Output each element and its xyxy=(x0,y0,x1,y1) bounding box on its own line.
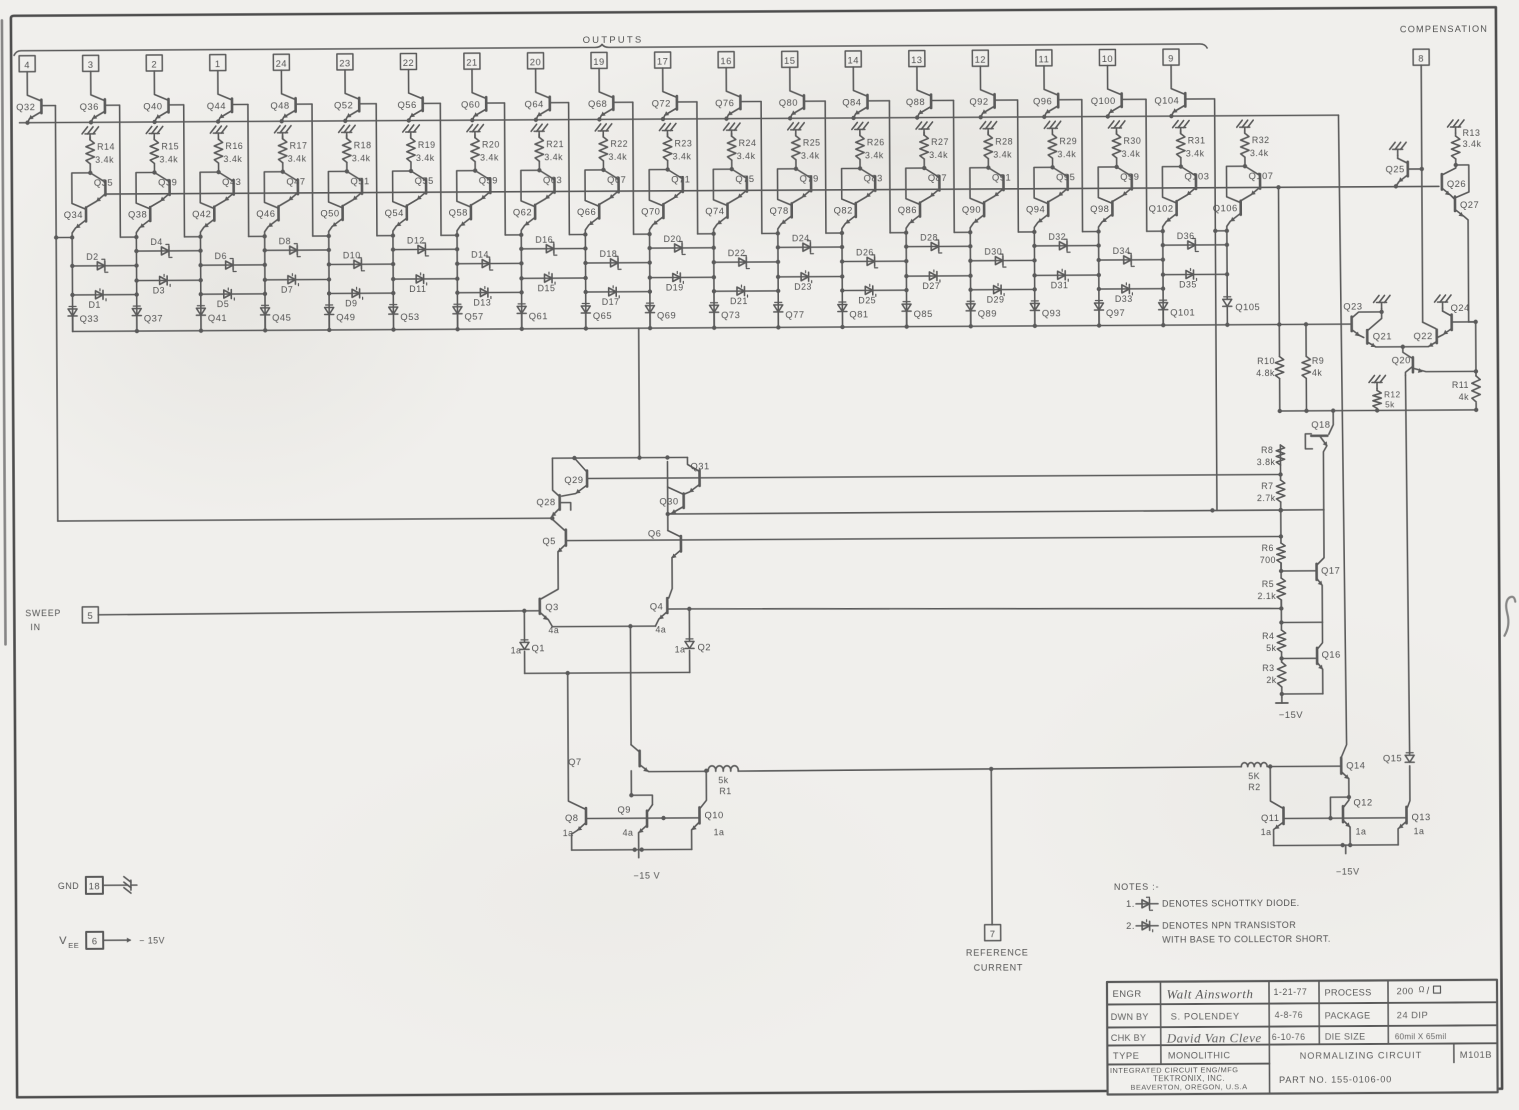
transistor Q39 xyxy=(151,172,177,206)
resistor R21 3.4k xyxy=(535,134,564,172)
pin 9 output terminal xyxy=(1163,49,1179,65)
transistor Q76 xyxy=(715,68,741,121)
ground for R20 xyxy=(467,125,484,138)
diode D19 xyxy=(648,271,714,292)
diode D35 xyxy=(1161,268,1227,289)
junction dots ladder 4 xyxy=(263,263,268,296)
wire Q84 base to ladder 14 xyxy=(868,101,908,235)
svg-text:D23: D23 xyxy=(794,282,812,292)
svg-text:OUTPUTS: OUTPUTS xyxy=(583,35,644,46)
transistor Q54 xyxy=(384,171,411,236)
svg-text:3.4k: 3.4k xyxy=(480,152,499,162)
resistor R11 4k xyxy=(1452,322,1481,412)
svg-text:Q87: Q87 xyxy=(928,172,947,183)
transistor Q36 xyxy=(79,71,105,124)
transistor Q34 xyxy=(64,173,91,238)
ladder 16 column wire xyxy=(1033,232,1036,326)
transistor Q48 xyxy=(270,70,296,123)
svg-text:CURRENT: CURRENT xyxy=(974,962,1024,972)
resistor R6 700 xyxy=(1260,543,1286,571)
svg-text:13: 13 xyxy=(911,54,923,65)
wire Q32 base to ladder 1 xyxy=(42,105,76,521)
svg-text:GND: GND xyxy=(58,881,79,891)
svg-text:D12: D12 xyxy=(407,235,425,245)
svg-text:22: 22 xyxy=(403,57,415,68)
svg-text:D14: D14 xyxy=(471,250,489,260)
svg-text:Q28: Q28 xyxy=(536,496,555,507)
svg-text:IN: IN xyxy=(30,622,40,632)
svg-text:Q39: Q39 xyxy=(158,176,177,187)
pin 17 output terminal xyxy=(655,52,671,68)
transistor Q26 xyxy=(1442,165,1466,199)
transistor Q55 xyxy=(408,171,434,205)
resistor R2 5k xyxy=(1241,762,1340,792)
svg-text:15: 15 xyxy=(784,55,796,66)
schottky diode D6 xyxy=(198,251,265,272)
svg-text:Q45: Q45 xyxy=(272,312,291,323)
svg-text:1.: 1. xyxy=(1126,898,1135,909)
svg-text:R13: R13 xyxy=(1463,128,1481,138)
svg-text:REFERENCE: REFERENCE xyxy=(966,947,1029,957)
transistor Q78 xyxy=(769,169,796,234)
svg-text:D21: D21 xyxy=(730,296,748,306)
pin 14 output terminal xyxy=(845,51,861,67)
bus drop to Q14 collector wire xyxy=(1337,115,1346,758)
svg-text:R20: R20 xyxy=(482,139,500,149)
transistor Q22 xyxy=(1403,330,1437,347)
svg-text:DIE SIZE: DIE SIZE xyxy=(1325,1032,1366,1042)
wire Q48 base to ladder 5 xyxy=(297,104,331,238)
transistor Q75 xyxy=(728,169,754,203)
svg-text:3.4k: 3.4k xyxy=(223,154,242,164)
svg-text:Q26: Q26 xyxy=(1447,178,1466,189)
transistor Q24 xyxy=(1435,295,1478,337)
diode Q15 xyxy=(1383,752,1414,763)
svg-text:Q42: Q42 xyxy=(192,208,211,219)
svg-text:Q33: Q33 xyxy=(80,313,99,324)
svg-text:Q83: Q83 xyxy=(864,172,883,183)
svg-text:Q56: Q56 xyxy=(397,99,416,110)
diode-transistor Q45 xyxy=(261,305,292,332)
wire Q100 base to ladder 18 xyxy=(1123,99,1165,233)
title row DWN BY xyxy=(1111,1009,1429,1022)
svg-text:Q51: Q51 xyxy=(350,175,369,186)
svg-text:Q14: Q14 xyxy=(1346,760,1365,771)
ground symbol for pin 18 xyxy=(124,877,137,894)
junction dots ladder 16 xyxy=(1032,258,1037,291)
ground for R32 xyxy=(1237,120,1254,133)
svg-text:R25: R25 xyxy=(803,138,821,148)
svg-text:Q37: Q37 xyxy=(144,312,163,323)
ground for R26 xyxy=(852,122,869,135)
svg-text:Q57: Q57 xyxy=(464,311,483,322)
pin 13 output terminal xyxy=(909,51,925,67)
transistor Q47 xyxy=(279,172,305,206)
svg-text:2.1k: 2.1k xyxy=(1257,591,1276,601)
title block company xyxy=(1110,1064,1392,1092)
svg-text:/: / xyxy=(1426,986,1429,997)
svg-text:3.4k: 3.4k xyxy=(929,150,948,160)
svg-text:Q77: Q77 xyxy=(785,309,804,320)
transistor Q102 xyxy=(1148,167,1181,232)
svg-text:1-21-77: 1-21-77 xyxy=(1273,987,1307,997)
svg-text:3.4k: 3.4k xyxy=(1250,148,1269,158)
svg-text:PROCESS: PROCESS xyxy=(1325,987,1372,997)
ladder bottom rail wire xyxy=(73,322,1351,334)
resistor R24 3.4k xyxy=(727,133,756,171)
junction dots ladder 14 xyxy=(904,259,909,292)
svg-text:Q4: Q4 xyxy=(650,601,664,612)
ground for R24 xyxy=(724,123,741,136)
svg-text:3.4k: 3.4k xyxy=(1463,139,1482,149)
ladder 17 column wire xyxy=(1098,232,1101,326)
wire Q88 base to ladder 15 xyxy=(932,100,972,234)
svg-text:Q78: Q78 xyxy=(769,205,788,216)
resistor R26 3.4k xyxy=(856,132,885,170)
svg-text:Q35: Q35 xyxy=(94,177,113,188)
svg-text:Q62: Q62 xyxy=(513,206,532,217)
svg-text:− 15V: − 15V xyxy=(139,935,165,945)
transistor Q84 xyxy=(842,67,868,120)
svg-text:Q89: Q89 xyxy=(978,308,997,319)
svg-text:R8: R8 xyxy=(1261,445,1273,455)
svg-text:R1: R1 xyxy=(719,786,731,796)
ground for R19 xyxy=(403,125,420,138)
svg-text:Q98: Q98 xyxy=(1090,203,1109,214)
svg-text:Q90: Q90 xyxy=(962,204,981,215)
transistor Q10 xyxy=(691,771,724,850)
svg-text:24 DIP: 24 DIP xyxy=(1397,1009,1429,1020)
transistor Q82 xyxy=(833,168,860,233)
pin 21 output terminal xyxy=(464,53,480,69)
svg-text:Q72: Q72 xyxy=(652,98,671,109)
svg-text:Q101: Q101 xyxy=(1170,306,1195,317)
resistor R32 3.4k xyxy=(1241,130,1270,168)
wire node rail 457 xyxy=(552,455,687,460)
svg-text:24: 24 xyxy=(276,58,288,69)
junction dots ladder 3 xyxy=(198,249,203,283)
svg-text:D34: D34 xyxy=(1113,246,1131,256)
svg-text:Q9: Q9 xyxy=(617,804,631,815)
transistor Q68 xyxy=(588,68,614,121)
diode-transistor Q49 xyxy=(325,305,356,332)
svg-text:Q44: Q44 xyxy=(207,100,226,111)
svg-text:R16: R16 xyxy=(225,141,243,151)
svg-text:R19: R19 xyxy=(418,140,436,150)
schottky diode D24 xyxy=(776,233,842,254)
diode-transistor Q69 xyxy=(645,303,676,330)
svg-text:7: 7 xyxy=(990,928,996,939)
transistor Q31 xyxy=(684,457,709,494)
svg-text:3: 3 xyxy=(88,59,94,70)
ladder 2 column wire xyxy=(135,237,138,331)
pin 4 output terminal xyxy=(19,56,35,72)
junction dots ladder 8 xyxy=(519,261,524,294)
transistor Q103 xyxy=(1177,166,1209,200)
svg-text:David Van Cleve: David Van Cleve xyxy=(1166,1030,1262,1046)
svg-text:3.4k: 3.4k xyxy=(1122,149,1141,159)
svg-text:Q20: Q20 xyxy=(1392,354,1411,365)
schottky diode D2 xyxy=(70,252,137,273)
ground for R28 xyxy=(980,122,997,135)
Q5/Q6 base rail wire xyxy=(567,536,1281,540)
transistor Q17 xyxy=(1281,510,1341,623)
transistor Q6 xyxy=(648,527,681,598)
resistor R14 3.4k xyxy=(86,137,115,175)
svg-text:Q46: Q46 xyxy=(256,208,275,219)
pin 1 output terminal xyxy=(210,55,226,71)
svg-text:Q63: Q63 xyxy=(543,174,562,185)
transistor Q44 xyxy=(207,71,233,124)
transistor Q96 xyxy=(1033,66,1059,119)
svg-text:R32: R32 xyxy=(1252,135,1270,145)
svg-text:D1: D1 xyxy=(89,300,101,310)
svg-text:5k: 5k xyxy=(1385,400,1395,409)
-15V label left xyxy=(633,871,660,881)
svg-text:Q67: Q67 xyxy=(607,174,626,185)
OUTPUTS label xyxy=(583,35,644,46)
ground for R30 xyxy=(1108,121,1125,134)
diode D5 xyxy=(199,288,266,309)
transistor Q43 xyxy=(215,172,241,206)
svg-text:4.8k: 4.8k xyxy=(1256,368,1275,378)
ladder 7 column wire xyxy=(456,235,459,329)
transistor Q58 xyxy=(448,171,475,236)
svg-text:2.7k: 2.7k xyxy=(1257,493,1276,503)
svg-text:D30: D30 xyxy=(984,247,1002,257)
pin 12 output terminal xyxy=(972,50,988,66)
svg-text:R14: R14 xyxy=(97,142,115,152)
junction dots ladder 2 xyxy=(134,263,139,296)
svg-text:10: 10 xyxy=(1102,53,1114,64)
pin 22 output terminal xyxy=(400,53,416,69)
wire Q64 base to ladder 9 xyxy=(551,102,588,236)
diode-transistor Q37 xyxy=(132,306,163,333)
transistor Q30 xyxy=(659,461,684,530)
transistor Q28 xyxy=(536,458,571,520)
svg-text:Q21: Q21 xyxy=(1373,330,1392,341)
svg-text:Q49: Q49 xyxy=(336,311,355,322)
Q4 base rail wire xyxy=(689,605,1281,611)
transistor Q23 xyxy=(1343,295,1390,337)
svg-text:Q107: Q107 xyxy=(1248,170,1273,181)
junction dots ladder 7 xyxy=(455,247,460,281)
svg-text:R5: R5 xyxy=(1262,579,1274,589)
svg-text:17: 17 xyxy=(657,56,669,67)
svg-text:3.4k: 3.4k xyxy=(416,153,435,163)
svg-text:Q43: Q43 xyxy=(222,176,241,187)
diode D9 xyxy=(327,287,394,308)
svg-text:Q81: Q81 xyxy=(849,308,868,319)
diode D27 xyxy=(904,270,970,291)
svg-text:8: 8 xyxy=(1418,53,1424,64)
diode D15 xyxy=(519,272,585,293)
transistor Q99 xyxy=(1113,167,1139,201)
title row TYPE xyxy=(1113,1048,1492,1062)
svg-text:Q92: Q92 xyxy=(969,96,988,107)
svg-text:Q32: Q32 xyxy=(16,101,35,112)
resistor R17 3.4k xyxy=(278,136,307,174)
svg-text:Q23: Q23 xyxy=(1343,301,1362,312)
diode-transistor Q65 xyxy=(581,303,612,330)
transistor Q7 xyxy=(568,744,708,774)
svg-text:3.4k: 3.4k xyxy=(352,153,371,163)
diode D1 xyxy=(70,289,137,310)
svg-text:4k: 4k xyxy=(1312,368,1322,378)
svg-text:D26: D26 xyxy=(856,247,874,257)
schottky diode D28 xyxy=(904,232,970,253)
diode D11 xyxy=(391,273,457,294)
junction dots ladder 12 xyxy=(776,260,781,293)
svg-text:D10: D10 xyxy=(343,250,361,260)
svg-text:COMPENSATION: COMPENSATION xyxy=(1400,24,1488,35)
ground for R29 xyxy=(1044,121,1060,134)
svg-text:Q50: Q50 xyxy=(320,207,339,218)
diode-transistor Q85 xyxy=(902,302,933,329)
svg-text:Q76: Q76 xyxy=(715,97,734,108)
svg-text:6-10-76: 6-10-76 xyxy=(1272,1032,1306,1042)
svg-text:Q16: Q16 xyxy=(1322,649,1341,660)
diode-transistor Q53 xyxy=(389,304,420,331)
svg-text:Q24: Q24 xyxy=(1451,302,1470,313)
svg-text:M101B: M101B xyxy=(1460,1049,1492,1060)
ladder 11 column wire xyxy=(713,234,716,328)
svg-text:D7: D7 xyxy=(281,285,293,295)
svg-text:4k: 4k xyxy=(1459,392,1469,402)
transistor Q67 xyxy=(600,170,626,204)
svg-text:Q91: Q91 xyxy=(992,172,1011,183)
pin 2 output terminal xyxy=(146,55,162,71)
wire Q68 base to ladder 10 xyxy=(614,102,651,236)
diode-transistor Q97 xyxy=(1094,300,1125,327)
svg-text:3.8k: 3.8k xyxy=(1257,457,1276,467)
svg-text:Q96: Q96 xyxy=(1033,95,1052,106)
transistor Q91 xyxy=(985,168,1011,202)
svg-text:Q65: Q65 xyxy=(593,310,612,321)
svg-text:D15: D15 xyxy=(538,283,556,293)
transistor Q50 xyxy=(320,171,347,236)
transistor Q60 xyxy=(461,69,487,122)
resistor R22 3.4k xyxy=(599,134,628,172)
svg-text:PART NO. 155-0106-00: PART NO. 155-0106-00 xyxy=(1279,1074,1392,1085)
ladder 1 column wire xyxy=(71,237,74,331)
svg-text:D4: D4 xyxy=(150,237,162,247)
diode D17 xyxy=(583,286,650,307)
svg-text:NORMALIZING CIRCUIT: NORMALIZING CIRCUIT xyxy=(1300,1050,1423,1061)
svg-text:Q13: Q13 xyxy=(1411,811,1430,822)
svg-text:Q88: Q88 xyxy=(906,96,925,107)
transistor Q100 xyxy=(1091,65,1122,118)
ladder 5 column wire xyxy=(328,236,331,330)
resistor R10 4.8k xyxy=(1256,356,1284,411)
svg-text:D35: D35 xyxy=(1179,279,1197,289)
svg-text:3.4k: 3.4k xyxy=(801,151,820,161)
diode D23 xyxy=(776,271,842,292)
junction dots ladder 5 xyxy=(327,248,332,282)
svg-text:R21: R21 xyxy=(546,139,564,149)
svg-text:1a: 1a xyxy=(1414,826,1425,836)
diode D25 xyxy=(840,284,907,305)
resistor R9 4k xyxy=(1302,322,1325,411)
svg-text:Walt Ainsworth: Walt Ainsworth xyxy=(1166,986,1253,1001)
svg-text:SWEEP: SWEEP xyxy=(25,608,61,618)
svg-text:PACKAGE: PACKAGE xyxy=(1325,1010,1371,1020)
svg-text:21: 21 xyxy=(466,57,478,68)
svg-text:Q79: Q79 xyxy=(799,173,818,184)
junction dots ladder 13 xyxy=(840,245,845,279)
svg-text:TYPE: TYPE xyxy=(1113,1050,1140,1061)
transistor Q46 xyxy=(256,172,283,237)
title row CHK BY xyxy=(1111,1029,1447,1046)
svg-text:4a: 4a xyxy=(623,828,634,838)
ground for R17 xyxy=(275,126,292,139)
transistor Q107 xyxy=(1241,166,1273,200)
svg-text:1a: 1a xyxy=(1261,827,1272,837)
junction dots ladder 9 xyxy=(583,246,588,280)
svg-text:Q95: Q95 xyxy=(1056,171,1075,182)
svg-text:−15V: −15V xyxy=(1279,709,1303,720)
svg-text:Q34: Q34 xyxy=(64,209,83,220)
svg-text:D13: D13 xyxy=(473,298,491,308)
transistor Q5 xyxy=(541,519,566,599)
transistor Q52 xyxy=(334,70,360,123)
svg-text:2k: 2k xyxy=(1266,675,1276,685)
svg-text:Q59: Q59 xyxy=(479,175,498,186)
svg-text:R12: R12 xyxy=(1384,390,1401,399)
svg-text:3.4k: 3.4k xyxy=(1186,148,1205,158)
svg-text:18: 18 xyxy=(89,880,101,891)
svg-text:Q70: Q70 xyxy=(641,206,660,217)
svg-text:DENOTES SCHOTTKY DIODE.: DENOTES SCHOTTKY DIODE. xyxy=(1162,898,1300,909)
schottky diode D12 xyxy=(391,235,457,256)
svg-text:Q68: Q68 xyxy=(588,98,607,109)
wire Q76 base to ladder 12 xyxy=(741,101,780,235)
svg-text:Q30: Q30 xyxy=(659,495,678,506)
VEE pin 6 terminal xyxy=(59,931,165,950)
outputs brace line xyxy=(14,41,1207,55)
Q7 base loop wire xyxy=(629,771,652,805)
svg-text:Q48: Q48 xyxy=(270,100,289,111)
ladder 19 column wire xyxy=(1225,231,1230,300)
diode-transistor Q57 xyxy=(453,304,484,331)
schottky diode D4 xyxy=(134,237,200,258)
svg-text:Q27: Q27 xyxy=(1460,199,1479,210)
ground for R15 xyxy=(146,126,163,139)
transistor Q11 xyxy=(1260,766,1283,845)
mirror emitter rail wire xyxy=(1274,843,1399,854)
diode D21 xyxy=(712,285,779,306)
svg-text:3.4k: 3.4k xyxy=(1057,149,1076,159)
current source emitter rail wire xyxy=(572,847,692,858)
wire Q36 base to ladder 2 xyxy=(106,105,139,239)
schottky diode D8 xyxy=(262,236,328,257)
ground for R14 xyxy=(82,127,99,140)
diode-transistor Q61 xyxy=(517,304,548,331)
transistor Q12 xyxy=(1343,796,1373,845)
diode-transistor Q89 xyxy=(966,301,997,328)
svg-text:Q71: Q71 xyxy=(671,173,690,184)
schottky diode D20 xyxy=(647,234,713,255)
transistor Q29 xyxy=(561,458,587,496)
diode-transistor Q73 xyxy=(710,303,741,330)
svg-text:R9: R9 xyxy=(1312,356,1324,366)
wire Q56 base to ladder 7 xyxy=(424,103,460,237)
resistor R8 3.8k xyxy=(1257,445,1285,475)
svg-text:Q105: Q105 xyxy=(1235,301,1260,312)
transistor Q62 xyxy=(513,170,540,235)
svg-text:D8: D8 xyxy=(279,236,291,246)
svg-text:Q40: Q40 xyxy=(143,100,162,111)
